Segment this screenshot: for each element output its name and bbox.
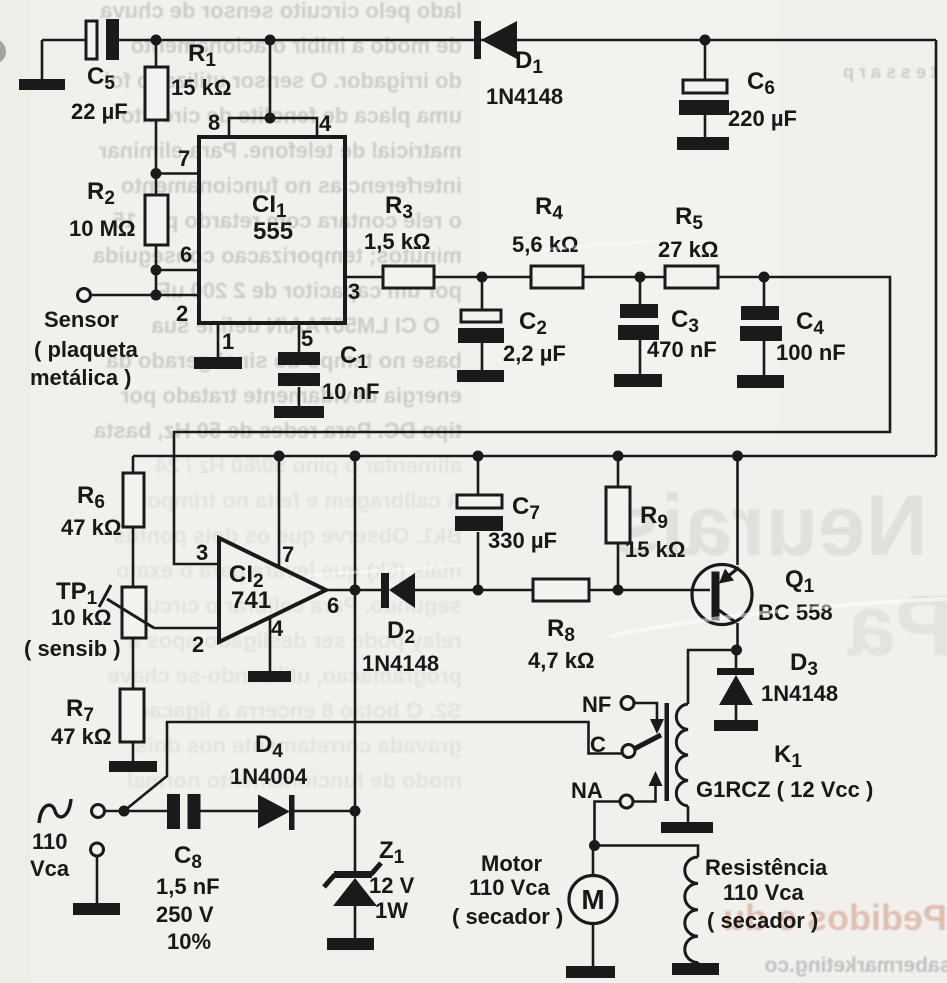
node AC C8 bbox=[119, 806, 130, 817]
wire: 555 pin8 pin4 bridge bbox=[229, 40, 317, 137]
svg-text:110 Vca: 110 Vca bbox=[723, 880, 805, 905]
node pin6 out bbox=[350, 585, 361, 596]
ground (741 pin4) bbox=[248, 671, 291, 682]
svg-text:A calibragem e feita no trimpo: A calibragem e feita no trimpot bbox=[139, 488, 462, 513]
resistor R2 bbox=[145, 195, 168, 245]
svg-text:( secador ): ( secador ) bbox=[707, 908, 818, 933]
ground (C6) bbox=[677, 137, 729, 150]
svg-text:Vca: Vca bbox=[30, 856, 70, 881]
svg-text:4: 4 bbox=[319, 111, 332, 136]
resistor R6 bbox=[123, 473, 144, 527]
svg-text:t e s s a r p: t e s s a r p bbox=[843, 62, 937, 82]
svg-text:110 Vca: 110 Vca bbox=[469, 875, 551, 900]
svg-text:22 µF: 22 µF bbox=[71, 99, 128, 124]
wire: pin5 stub bbox=[298, 323, 301, 406]
svg-text:5: 5 bbox=[301, 326, 313, 351]
capacitor C6 bbox=[679, 80, 729, 115]
ground (C1) bbox=[274, 406, 324, 418]
diode D1 bbox=[474, 21, 517, 59]
svg-text:Resistência: Resistência bbox=[705, 855, 828, 880]
node rail Q1 bbox=[732, 451, 743, 462]
node Q1 collector bbox=[731, 645, 742, 656]
svg-text:6: 6 bbox=[180, 242, 192, 267]
ground (resistencia) bbox=[672, 963, 719, 975]
node C3 bbox=[635, 272, 646, 283]
svg-text:330 µF: 330 µF bbox=[488, 528, 557, 553]
node NA motor bbox=[589, 840, 600, 851]
svg-text:4: 4 bbox=[271, 616, 284, 641]
wire: D2 to R8 to Q1 bbox=[415, 589, 710, 592]
wire: NF arm bbox=[634, 703, 657, 721]
wire: output vertical bbox=[354, 456, 357, 811]
svg-text:G1RCZ ( 12 Vcc ): G1RCZ ( 12 Vcc ) bbox=[696, 777, 873, 802]
wire: NA to motor junction bbox=[595, 802, 621, 846]
svg-text:M: M bbox=[581, 884, 604, 915]
ground (Z1) bbox=[327, 938, 374, 950]
wire: right edge vertical bbox=[935, 40, 938, 456]
svg-text:1N4148: 1N4148 bbox=[486, 84, 563, 109]
wire: left chain R6 TP1 R7 bbox=[132, 456, 135, 762]
svg-text:Pa: Pa bbox=[846, 578, 947, 674]
AC terminal 1 bbox=[92, 805, 105, 818]
NA arrow head bbox=[649, 771, 663, 786]
resistor R4 bbox=[531, 266, 583, 288]
svg-text:10%: 10% bbox=[167, 929, 211, 954]
wire: relay coil feed bbox=[688, 650, 738, 704]
wire: C feed long bbox=[124, 722, 622, 811]
wire: pin6 pin2 links bbox=[91, 245, 199, 295]
svg-text:10 nF: 10 nF bbox=[322, 379, 379, 404]
transistor Q1 bbox=[692, 565, 752, 625]
wire: motor resist row bbox=[593, 846, 698, 877]
node rail out bbox=[350, 451, 361, 462]
AC terminal 2 bbox=[91, 843, 104, 856]
resistor R8 bbox=[533, 579, 589, 601]
diode D4 bbox=[258, 795, 295, 831]
ground (AC) bbox=[73, 903, 120, 915]
svg-text:2: 2 bbox=[192, 632, 204, 657]
svg-text:metálica ): metálica ) bbox=[30, 365, 132, 390]
svg-text:555: 555 bbox=[253, 218, 293, 245]
wire: C6 stub bbox=[704, 40, 707, 137]
svg-text:7: 7 bbox=[282, 542, 294, 567]
node C7 low bbox=[473, 585, 484, 596]
wire: AC lower terminal ground bbox=[96, 856, 99, 903]
NF arrow head bbox=[650, 719, 664, 734]
resistor R9 bbox=[606, 487, 630, 543]
svg-text:10 MΩ: 10 MΩ bbox=[69, 216, 136, 241]
svg-text:1N4148: 1N4148 bbox=[362, 651, 439, 676]
capacitor C4 bbox=[740, 306, 782, 341]
wire: 741 pin7 bbox=[278, 456, 281, 568]
node R9 low bbox=[613, 585, 624, 596]
capacitor C7 bbox=[455, 495, 503, 531]
wire: C2 stub bbox=[481, 277, 484, 370]
wire: Z1 stubs bbox=[354, 811, 357, 938]
resistor R5 bbox=[665, 266, 718, 288]
wire: C7 stub bbox=[477, 456, 480, 590]
svg-text:2,2 µF: 2,2 µF bbox=[503, 341, 566, 366]
svg-text:1,5 nF: 1,5 nF bbox=[156, 874, 220, 899]
svg-text:100 nF: 100 nF bbox=[776, 340, 846, 365]
capacitor C1 bbox=[278, 352, 320, 386]
ground (pin1) bbox=[194, 357, 242, 369]
svg-text:energia devidamente tratado po: energia devidamente tratado por bbox=[120, 383, 462, 408]
wire: lower supply rail bbox=[133, 455, 936, 458]
zener Z1 bbox=[324, 863, 381, 906]
svg-text:15 kΩ: 15 kΩ bbox=[625, 537, 685, 562]
wire: resist coil ground bbox=[697, 962, 700, 964]
svg-text:( plaqueta: ( plaqueta bbox=[34, 337, 139, 362]
svg-text:tipo DC. Para redes de 50 Hz,: tipo DC. Para redes de 50 Hz, basta bbox=[93, 418, 462, 443]
svg-text:5,6 kΩ: 5,6 kΩ bbox=[512, 232, 579, 257]
ground (K1 coil) bbox=[661, 822, 713, 833]
wire: AC row through C8 D4 bbox=[104, 810, 355, 813]
svg-text:6: 6 bbox=[327, 593, 339, 618]
resistor R1 bbox=[145, 67, 168, 120]
svg-text:www.sabermarketing.co: www.sabermarketing.co bbox=[765, 954, 947, 977]
svg-text:NF: NF bbox=[582, 692, 611, 717]
node pin2 bbox=[151, 290, 162, 301]
ground (C3) bbox=[614, 374, 662, 387]
wire: NA arm bbox=[633, 786, 656, 802]
node rail pin7 bbox=[274, 451, 285, 462]
svg-text:lado pelo circuito sensor de c: lado pelo circuito sensor de chuva bbox=[99, 0, 462, 23]
node rail C7 bbox=[473, 451, 484, 462]
svg-text:220 µF: 220 µF bbox=[728, 106, 797, 131]
ground (C2) bbox=[457, 370, 504, 382]
svg-text:1N4004: 1N4004 bbox=[230, 764, 308, 789]
svg-text:250 V: 250 V bbox=[156, 902, 214, 927]
node C4 bbox=[759, 272, 770, 283]
wire: pin7 link bbox=[156, 40, 199, 195]
relay core bar bbox=[665, 703, 670, 801]
wire: left ground stub bbox=[41, 40, 44, 80]
sensor terminal bbox=[78, 289, 91, 302]
component bodies bbox=[120, 67, 718, 742]
svg-text:8: 8 bbox=[208, 110, 220, 135]
svg-text:110: 110 bbox=[32, 829, 68, 854]
svg-text:4,7 kΩ: 4,7 kΩ bbox=[528, 648, 595, 673]
svg-text:10 kΩ: 10 kΩ bbox=[51, 605, 111, 630]
wire: D3 stubs bbox=[735, 650, 738, 720]
svg-text:47 kΩ: 47 kΩ bbox=[51, 724, 111, 749]
AC source symbol bbox=[39, 799, 71, 823]
svg-text:de modo a inibir o acionamento: de modo a inibir o acionamento bbox=[131, 33, 462, 58]
svg-text:uma placa de fenolite de circu: uma placa de fenolite de circuito bbox=[121, 103, 462, 128]
svg-text:12 V: 12 V bbox=[369, 873, 415, 898]
svg-text:NA: NA bbox=[571, 778, 603, 803]
svg-text:gravada corretamente nos dois: gravada corretamente nos dois bbox=[136, 733, 462, 758]
diode D3 bbox=[717, 668, 754, 705]
node pin6 bbox=[151, 265, 162, 276]
contact NF terminal bbox=[621, 697, 634, 710]
svg-text:S2. O botao 8 encerra a ligaca: S2. O botao 8 encerra a ligacao bbox=[136, 698, 462, 723]
capacitor C8 bbox=[167, 794, 201, 829]
wire: pin6 out bbox=[326, 589, 381, 592]
svg-text:47 kΩ: 47 kΩ bbox=[61, 515, 121, 540]
svg-text:O CI LM567AA/N define sua: O CI LM567AA/N define sua bbox=[151, 313, 440, 338]
ground (R7) bbox=[109, 761, 157, 772]
wire: motor ground bbox=[592, 923, 595, 967]
op-amp CI2 741 triangle bbox=[219, 538, 326, 642]
wire: 741 pin2 bbox=[154, 627, 219, 630]
wire: C3 stub bbox=[639, 277, 642, 374]
node rail R9 bbox=[613, 451, 624, 462]
capacitor C3 bbox=[618, 304, 659, 340]
IC CI1 555 box bbox=[199, 137, 345, 323]
resistor R3 bbox=[383, 266, 434, 288]
ground (D3) bbox=[714, 720, 758, 731]
svg-text:interferencias no funcionament: interferencias no funcionamento bbox=[121, 173, 462, 198]
left edge cut glyph bbox=[0, 40, 6, 64]
wire: pin3 row bbox=[174, 277, 890, 564]
relay blade bbox=[634, 735, 661, 749]
capacitor C5 bbox=[86, 19, 119, 60]
wire: K1 coil ground bbox=[687, 806, 690, 822]
diode D2 bbox=[381, 573, 415, 608]
bleed-through mirrored text lower-left bbox=[107, 453, 462, 793]
wire: top rail bbox=[42, 39, 936, 42]
svg-text:470 nF: 470 nF bbox=[647, 337, 717, 362]
svg-text:1: 1 bbox=[222, 329, 234, 354]
node C5/R1 bbox=[151, 35, 162, 46]
svg-text:matricial de telefone. Para el: matricial de telefone. Para eliminar bbox=[98, 138, 462, 163]
node 555 supply bbox=[265, 35, 276, 46]
node 8-4 bridge bbox=[265, 113, 276, 124]
trimpot TP1 bbox=[122, 587, 146, 638]
wire: pin1 stub bbox=[217, 323, 220, 357]
svg-text:3: 3 bbox=[348, 279, 360, 304]
svg-text:2: 2 bbox=[176, 301, 188, 326]
node D4 Z1 bbox=[350, 806, 361, 817]
ground (motor) bbox=[566, 966, 615, 978]
capacitor C2 bbox=[458, 310, 504, 343]
wire: 741 pin4 bbox=[269, 617, 272, 671]
svg-text:Motor: Motor bbox=[481, 851, 543, 876]
svg-text:( sensib ): ( sensib ) bbox=[24, 636, 121, 661]
svg-text:( secador ): ( secador ) bbox=[452, 904, 563, 929]
trimpot TP1 arrow bbox=[99, 585, 154, 628]
svg-text:1W: 1W bbox=[375, 898, 408, 923]
svg-text:7: 7 bbox=[178, 146, 190, 171]
node R1/R2 pin7 bbox=[151, 168, 162, 179]
node C6 bbox=[700, 35, 711, 46]
node C2 bbox=[477, 272, 488, 283]
wire: Q1 emitter collector bbox=[736, 456, 739, 650]
svg-text:3: 3 bbox=[196, 540, 208, 565]
svg-text:Sensor: Sensor bbox=[44, 307, 119, 332]
resistor R7 bbox=[120, 689, 144, 742]
svg-text:15 kΩ: 15 kΩ bbox=[171, 75, 231, 100]
ground (C5) bbox=[19, 79, 65, 90]
svg-text:1,5 kΩ: 1,5 kΩ bbox=[364, 229, 431, 254]
scan scratches bbox=[610, 599, 947, 636]
motor M circle bbox=[569, 876, 617, 924]
resistencia coil bbox=[685, 857, 698, 963]
wire: C4 stub bbox=[763, 277, 766, 375]
contact NA terminal bbox=[620, 795, 633, 808]
svg-text:C: C bbox=[590, 732, 606, 757]
bleed-through mirrored text top-left bbox=[92, 0, 462, 443]
svg-text:741: 741 bbox=[231, 587, 271, 614]
wire: R9 stub bbox=[617, 456, 620, 590]
K1 relay coil bbox=[676, 704, 688, 806]
ground (C4) bbox=[737, 375, 784, 388]
svg-text:1N4148: 1N4148 bbox=[761, 681, 838, 706]
contact C terminal bbox=[622, 745, 635, 758]
